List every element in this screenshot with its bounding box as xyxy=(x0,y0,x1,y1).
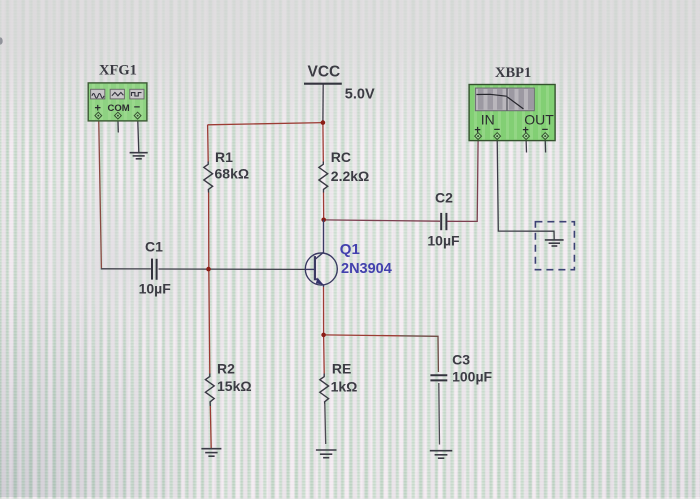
svg-text:COM: COM xyxy=(108,103,130,114)
svg-text:15kΩ: 15kΩ xyxy=(217,378,252,394)
svg-text:C3: C3 xyxy=(452,351,470,367)
svg-text:+: + xyxy=(522,124,528,136)
svg-text:100µF: 100µF xyxy=(452,368,492,384)
svg-text:R1: R1 xyxy=(215,149,233,165)
svg-text:Q1: Q1 xyxy=(340,241,360,258)
svg-text:68kΩ: 68kΩ xyxy=(215,166,250,182)
svg-text:2.2kΩ: 2.2kΩ xyxy=(331,168,369,184)
svg-text:C1: C1 xyxy=(145,239,163,255)
svg-text:XFG1: XFG1 xyxy=(99,63,137,79)
svg-text:+: + xyxy=(474,124,480,136)
svg-text:2N3904: 2N3904 xyxy=(341,261,392,277)
svg-text:VCC: VCC xyxy=(308,64,341,81)
svg-text:R2: R2 xyxy=(217,360,235,376)
svg-text:RE: RE xyxy=(332,361,351,377)
svg-text:1kΩ: 1kΩ xyxy=(331,378,358,394)
svg-text:XBP1: XBP1 xyxy=(495,65,531,81)
svg-text:10µF: 10µF xyxy=(139,280,172,296)
svg-text:C2: C2 xyxy=(435,190,453,206)
svg-text:5.0V: 5.0V xyxy=(345,87,375,103)
svg-text:−: − xyxy=(134,102,140,114)
svg-text:10µF: 10µF xyxy=(427,232,460,248)
svg-text:IN: IN xyxy=(481,112,495,128)
svg-text:−: − xyxy=(542,124,548,136)
svg-text:+: + xyxy=(95,103,101,115)
svg-text:−: − xyxy=(494,124,500,136)
svg-text:RC: RC xyxy=(331,149,351,165)
